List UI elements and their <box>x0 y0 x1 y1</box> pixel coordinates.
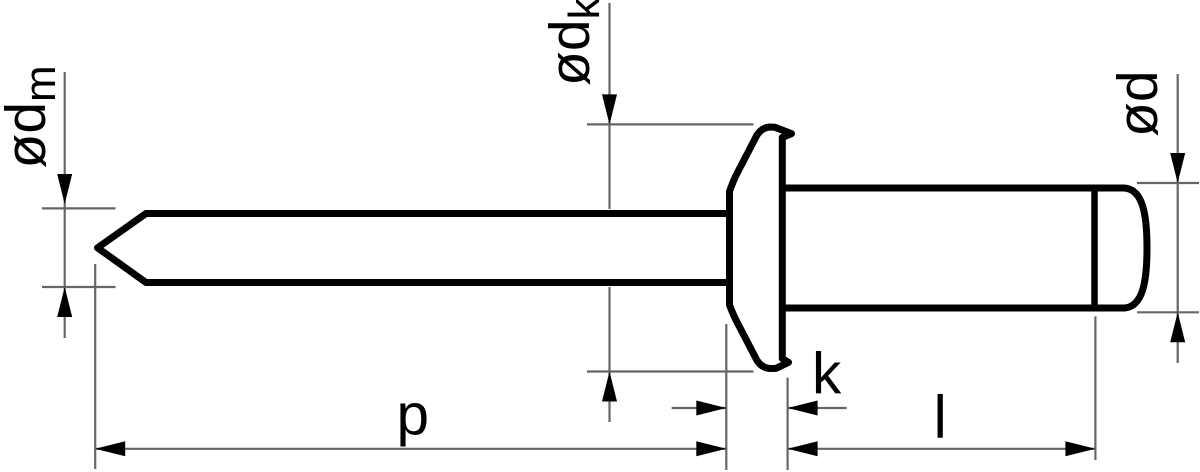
svg-text:k: k <box>812 342 842 407</box>
dimension p: extension line right (flange left face) <box>725 324 727 470</box>
svg-text:p: p <box>397 383 430 448</box>
dimension l: arrow right <box>1065 441 1095 456</box>
mandrel head cap divider line <box>1091 185 1098 311</box>
dimension ødm: arrow up <box>57 287 72 317</box>
dimension k: left tail with arrow <box>672 407 727 409</box>
dimension l: extension line right (body end) <box>1094 316 1096 460</box>
dimension ødk: arrow up <box>602 372 617 402</box>
dimension p: extension line left (mandrel tip) <box>94 264 96 469</box>
rivet body outline <box>782 188 1147 308</box>
svg-text:l: l <box>934 384 947 451</box>
rivet flange (head) <box>730 127 792 369</box>
svg-text:ød: ød <box>1106 70 1170 137</box>
dimension k: right tail with arrow <box>788 407 847 409</box>
dimension ød: arrow up <box>1170 312 1185 342</box>
dimension ødm: vertical dimension line <box>64 72 66 338</box>
dimension k: arrow left-pointing <box>788 401 818 416</box>
dimension l: arrow left <box>788 441 818 456</box>
dimension ød: vertical dimension line <box>1177 74 1179 363</box>
dimension ødk: vertical dimension line upper <box>608 3 610 209</box>
dimension ød: extension tick bottom <box>1137 311 1199 313</box>
dimension ødk: extension tick bottom <box>587 370 754 372</box>
dimension ødk: vertical dimension line lower <box>608 287 610 422</box>
dimension ødm: extension tick top <box>42 207 116 209</box>
dimension p: dimension line <box>95 448 726 450</box>
dimension l: dimension line <box>788 448 1096 450</box>
dimension ødm: extension tick bottom <box>42 286 116 288</box>
mandrel stem (pointed pin) <box>98 214 736 283</box>
dimension p: arrow left <box>95 441 125 456</box>
dimension ødk: extension tick top <box>587 123 754 125</box>
dimension ødk: arrow down <box>602 94 617 124</box>
dimension ød: extension tick top <box>1137 182 1199 184</box>
dimension k: extension line right (flange right face) <box>786 378 788 470</box>
rivet body fill <box>782 188 1147 308</box>
dimension p: arrow right <box>696 441 726 456</box>
dimension ød: arrow down <box>1170 153 1185 183</box>
dimension ødm: arrow down <box>57 174 72 204</box>
dimension k: arrow right-pointing <box>696 401 726 416</box>
